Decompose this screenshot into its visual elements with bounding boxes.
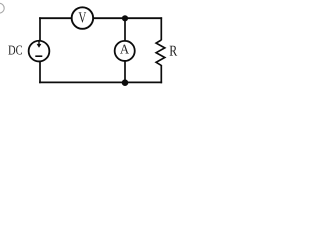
wire bottom side: [39, 81, 162, 83]
junction node bottom: [122, 79, 129, 86]
junction node top: [122, 15, 128, 21]
voltmeter letter V: [79, 12, 87, 22]
wire ammeter branch: [124, 18, 126, 82]
resistor R zigzag: [156, 40, 165, 65]
ammeter letter A: [120, 45, 129, 54]
DC source label: [8, 46, 15, 55]
resistor value label R: [170, 46, 178, 56]
wire left side: [39, 17, 41, 83]
wire right side upper: [160, 17, 162, 40]
ammeter A body: [115, 41, 135, 61]
DC source arrowhead: [37, 44, 42, 48]
wire right side lower: [160, 65, 162, 83]
wire top side: [39, 17, 162, 19]
DC source minus sign: [35, 55, 42, 57]
DC source arrow shaft: [38, 41, 40, 45]
voltmeter V body: [72, 7, 94, 29]
DC source body: [29, 41, 50, 62]
cropped figure-label arc (top-left corner): [0, 3, 4, 13]
